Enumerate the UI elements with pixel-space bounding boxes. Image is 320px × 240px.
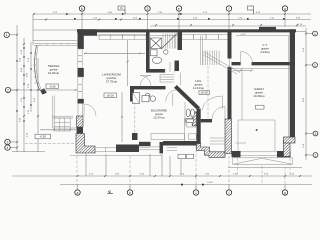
north wall inner line segments — [84, 35, 146, 37]
kitchen door arc — [166, 90, 177, 102]
garage south wall east nib — [277, 151, 291, 157]
garage south wall west nib — [232, 151, 241, 157]
bottom grid bubble e — [282, 185, 287, 196]
top dimension line 4 (left segment) — [33, 29, 77, 31]
svg-text:12.46mp: 12.46mp — [48, 71, 60, 75]
entry steps — [210, 138, 225, 144]
terrace curved wall — [35, 45, 40, 90]
entry south wall jog — [197, 144, 226, 158]
svg-text:1: 1 — [315, 153, 317, 157]
svg-text:±0.00: ±0.00 — [107, 93, 115, 97]
grid bubble 3 left (pair top) — [5, 139, 17, 144]
diagonal wall — [174, 85, 200, 110]
svg-text:1: 1 — [195, 191, 197, 195]
extra interior door arc west detail line — [52, 127, 76, 129]
window pane row north (stair/landing) — [181, 34, 231, 39]
top dimension line 2 — [33, 19, 311, 21]
bath1 door jambs — [165, 62, 175, 73]
section flag marker left — [118, 6, 125, 14]
hall grid dashed — [207, 66, 209, 118]
wc tank box — [186, 119, 193, 123]
stair upper flight treads — [163, 34, 175, 49]
chimney X box — [150, 38, 161, 49]
bath1 east wall stub — [175, 61, 180, 72]
garage sub dimension line — [228, 167, 302, 169]
level box SW — [35, 134, 51, 139]
window pane row north (livingroom) — [99, 34, 146, 39]
right dimension tiny texts — [303, 47, 305, 148]
GARAJ vent boxes — [256, 105, 265, 109]
sidewalk line below south wall — [70, 155, 162, 157]
svg-text:2: 2 — [7, 88, 9, 92]
CT south wall finish line — [232, 68, 290, 70]
left dimension line B — [23, 38, 25, 152]
bottom grid bubble b — [127, 185, 132, 196]
svg-text:1: 1 — [314, 63, 316, 67]
C.T. room west wall / garage west wall upper — [228, 32, 232, 59]
grid bubble right 3 — [306, 131, 318, 136]
GARAJ label — [253, 87, 265, 98]
stair edge line — [175, 34, 177, 49]
svg-text:±0.00: ±0.00 — [201, 91, 209, 95]
south wall B window lines — [167, 148, 177, 151]
bottom overall dimension line — [60, 184, 312, 186]
west wall between window and door — [78, 99, 84, 104]
steps dim line — [40, 129, 76, 131]
exterior steps — [54, 118, 70, 131]
terrace arc mullion ticks — [34, 53, 38, 83]
north wall parapet bump — [259, 27, 276, 30]
wall nib hall/garage door — [201, 119, 212, 122]
vertical grid dashed connectors below plan — [77, 145, 290, 189]
left dimension line A — [16, 25, 18, 152]
svg-text:g: g — [284, 7, 286, 11]
C.T. room south wall west segment — [232, 62, 241, 65]
TERASA level box — [46, 84, 59, 88]
stair thin east wall — [201, 36, 203, 65]
datum symbol bottom — [107, 190, 113, 194]
kitchen counter along south — [151, 118, 196, 141]
bath1 shower — [151, 50, 158, 56]
interior dim line above terrace — [33, 40, 77, 42]
garage up-and-over door symbol — [233, 158, 293, 165]
grid bubble 2 left — [5, 87, 17, 92]
svg-text:-0.05: -0.05 — [49, 84, 56, 88]
bath1 sink — [164, 50, 168, 54]
svg-text:27.70mp: 27.70mp — [106, 80, 118, 84]
wc toilet oval 1 — [186, 109, 190, 117]
stair lower flight treads — [203, 51, 219, 66]
grid bubble I right 2 — [306, 63, 317, 68]
west door arc — [84, 104, 96, 116]
svg-text:g: g — [284, 191, 286, 195]
southwest corner block — [76, 134, 95, 154]
interior dim line vertical — [127, 40, 129, 86]
HOL level box — [199, 91, 210, 95]
svg-text:f: f — [229, 191, 230, 195]
svg-text:b: b — [81, 7, 83, 11]
bath2 L-wall horizontal — [130, 86, 166, 89]
right connector top — [295, 30, 306, 32]
svg-text:e: e — [178, 7, 180, 11]
bottom grid bubble c — [193, 185, 198, 196]
left dimension line D — [37, 58, 39, 152]
interior dim line horizontal livingroom — [84, 52, 145, 54]
grid bubble 1 left — [4, 32, 17, 37]
right dimension line — [305, 28, 307, 160]
island column — [132, 133, 138, 140]
grid bubble B top — [79, 6, 84, 29]
svg-text:14.55: 14.55 — [207, 182, 213, 184]
right outer wall — [290, 29, 295, 140]
svg-text:12.37mp: 12.37mp — [153, 116, 165, 120]
tiny dimension numerals above top lines — [53, 12, 303, 26]
bottom dimension line with ticks — [12, 175, 312, 177]
TERASA room label — [48, 64, 60, 75]
left dimension line C — [30, 42, 32, 112]
bath1 tub oval — [152, 57, 161, 63]
stair cut line — [161, 34, 177, 50]
south wall thin sill segment — [151, 147, 160, 150]
west wall window pane column 1 — [78, 49, 82, 68]
door line above diagonal — [180, 73, 182, 85]
wc toilet oval 2 — [191, 109, 195, 117]
svg-text:19.46mp: 19.46mp — [253, 94, 265, 98]
left dimension tiny texts — [20, 49, 37, 137]
C.T. room south wall east segment — [252, 62, 290, 65]
terrace wall end block — [40, 88, 47, 94]
grid bubble E top — [176, 6, 181, 32]
svg-text:1: 1 — [314, 32, 316, 36]
grid bubble G top — [282, 6, 287, 27]
south terrace door sill — [95, 147, 116, 153]
grid bubble right 4 — [306, 153, 318, 158]
north outer wall band — [77, 29, 296, 32]
svg-text:-0.50: -0.50 — [39, 135, 46, 139]
kitchen column white — [132, 95, 136, 101]
exterior walkway edge — [52, 116, 73, 118]
garage reference line — [241, 69, 243, 121]
west wall lower — [77, 127, 84, 134]
garage west wall lower — [225, 119, 232, 154]
stair west wall A — [146, 32, 150, 73]
bottom grid bubble d — [226, 185, 231, 196]
bath2 L-wall vertical — [130, 86, 134, 102]
svg-text:b: b — [129, 191, 131, 195]
level boxes south center — [178, 154, 194, 158]
wc partition line — [184, 102, 186, 126]
terrace south railing — [52, 96, 54, 129]
svg-text:a: a — [77, 191, 79, 195]
grid bubble F top — [226, 6, 231, 31]
tick dots top line 2 — [66, 13, 285, 19]
hall west wall pilaster — [192, 112, 196, 126]
right tick marks — [305, 33, 307, 157]
svg-text:1: 1 — [6, 33, 8, 37]
thin vertical connectors bottom — [86, 154, 162, 176]
west wall door jamb lines — [77, 104, 79, 117]
garage east wall lower — [284, 140, 291, 157]
west wall window pane column 2 — [78, 77, 82, 99]
bottom grid bubble a — [75, 185, 80, 196]
grid bubble I right 1 — [306, 31, 317, 36]
LIVINGROOM level box — [104, 93, 117, 97]
hall west wall — [197, 109, 201, 146]
hall cupboard lines — [160, 75, 174, 83]
top dimension line 1 — [33, 13, 311, 15]
west wall pier — [78, 68, 84, 77]
garage door (hall) arc — [212, 107, 225, 120]
garage door opening sill — [241, 152, 278, 156]
left connector line lower — [12, 151, 45, 153]
garage door track lines — [236, 120, 276, 151]
interior dim line vertical lower — [121, 92, 123, 142]
svg-text:4: 4 — [7, 146, 9, 150]
bath2 double door arcs — [140, 76, 151, 87]
left column small dots — [16, 47, 31, 121]
bath2 sink — [145, 93, 150, 98]
tick marks top line 1 — [81, 13, 286, 15]
grid bubble 3 top — [145, 6, 150, 32]
extra top ticks — [33, 13, 298, 26]
hall door arc — [203, 96, 223, 110]
bath1 floor wall — [146, 69, 165, 73]
svg-text:3: 3 — [7, 140, 9, 144]
C.T. label — [260, 43, 270, 54]
C.T. door arc — [241, 52, 253, 64]
stair east wall D — [178, 32, 183, 50]
west wall hatched pier — [77, 116, 84, 127]
svg-text:f: f — [229, 7, 230, 11]
section flag marker right — [248, 6, 254, 14]
west outer wall upper — [78, 29, 84, 49]
south wall raised band — [139, 142, 151, 146]
svg-text:nr.15: nr.15 — [241, 33, 247, 36]
BUCATARIE label — [151, 109, 167, 120]
kitchen partition dashed — [134, 102, 136, 133]
grid bubble 4 left (pair bottom) — [5, 145, 17, 150]
tiny numerals above bottom line — [89, 174, 295, 176]
top dimension line 3 (right segment) — [150, 25, 306, 27]
dashed line terrace lower — [25, 143, 75, 145]
left tick marks — [16, 34, 39, 149]
short verticals below level boxes — [170, 156, 181, 175]
HOL label — [193, 79, 204, 90]
south wall mid block — [116, 145, 139, 153]
stair railing diagonal — [204, 52, 240, 73]
south wall step nib — [160, 142, 164, 153]
svg-text:4.23mp: 4.23mp — [260, 50, 270, 54]
svg-text:3: 3 — [147, 7, 149, 11]
grid line 2 horizontal segment — [11, 89, 77, 91]
south wall B (dining) — [163, 141, 197, 146]
LIVINGROOM label — [102, 73, 121, 84]
svg-text:11.41mp: 11.41mp — [193, 86, 204, 90]
C.T. door dim line — [233, 70, 253, 72]
bath2 shower box — [133, 93, 140, 104]
kitchen sink counter — [142, 96, 156, 102]
terrace top edge — [34, 44, 78, 46]
svg-text:3: 3 — [315, 132, 317, 136]
right wall jog block — [284, 137, 296, 143]
